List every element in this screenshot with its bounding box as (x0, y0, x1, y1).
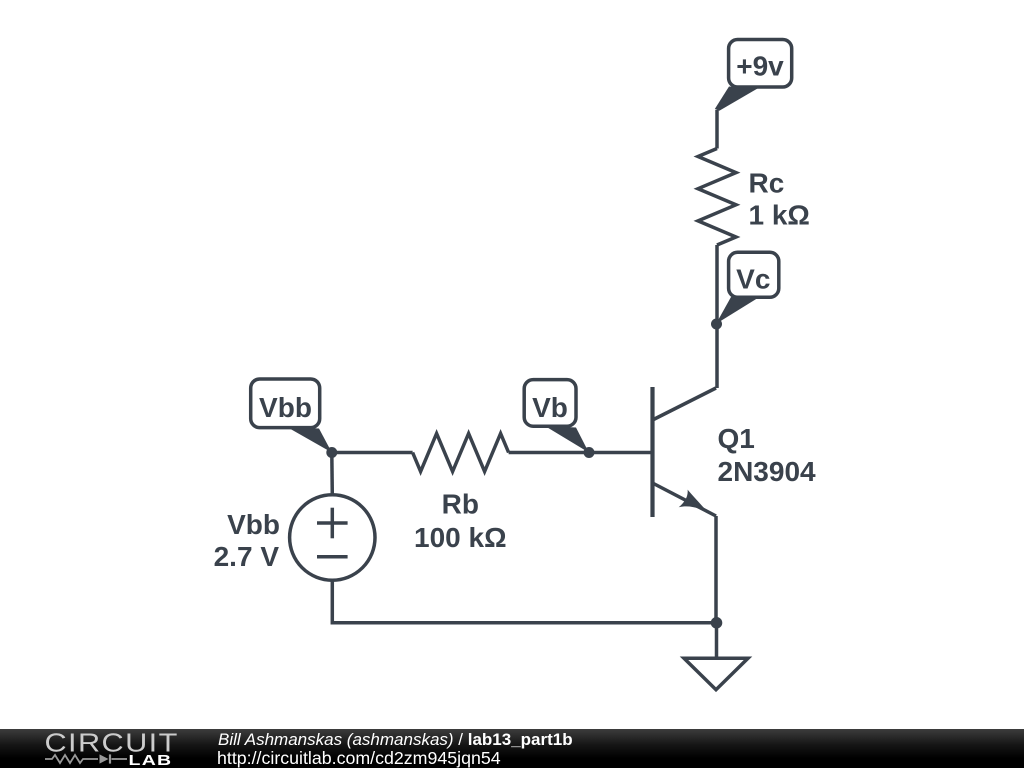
flag Vc (716, 252, 779, 324)
transistor Q1 emitter lead (653, 483, 717, 516)
wire Rc bottom to collector (715, 245, 719, 388)
flag Vbb (251, 379, 332, 453)
wire Vbb node to Rb left (332, 451, 413, 455)
transistor Q1 emitter arrow (679, 490, 709, 513)
footer title line (218, 730, 573, 750)
wire from +9v flag to Rc top (715, 110, 719, 149)
wire Vbb node down to source (330, 453, 334, 496)
svg-text:Vb: Vb (532, 392, 568, 423)
svg-text:Rc: Rc (749, 168, 785, 199)
svg-text:Vbb: Vbb (227, 509, 280, 540)
transistor Q1 collector lead (653, 388, 717, 420)
resistor Rc (698, 149, 736, 246)
svg-text:Vc: Vc (736, 264, 770, 295)
svg-text:2.7 V: 2.7 V (214, 541, 280, 572)
flag Vb (524, 380, 589, 453)
svg-text:LAB: LAB (129, 751, 173, 768)
wire emitter to ground junction (714, 516, 718, 623)
CircuitLab logo (0, 729, 180, 768)
svg-text:100 kΩ: 100 kΩ (414, 522, 507, 553)
node Vc junction dot (711, 319, 722, 330)
wire Rb right to Vb node (509, 451, 589, 455)
svg-text:Rb: Rb (442, 489, 479, 520)
value label Vbb 2.7 V (214, 509, 280, 572)
voltage source minus sign (317, 555, 348, 559)
svg-text:+9v: +9v (736, 51, 784, 82)
value label Rb 100 kOhm (414, 489, 507, 554)
transistor Q1 base bar (650, 387, 654, 517)
svg-text:Vbb: Vbb (259, 392, 312, 423)
footer bar (0, 729, 1024, 768)
wire source bottom down and right to ground junction (332, 580, 716, 623)
flag +9v (715, 40, 792, 111)
voltage source V1 circle (290, 495, 375, 580)
voltage source plus sign (317, 508, 348, 539)
footer url line (217, 748, 501, 769)
node Vbb junction dot (326, 447, 337, 458)
svg-text:1 kΩ: 1 kΩ (749, 200, 810, 231)
ground symbol (684, 623, 748, 690)
label Q1 2N3904 (718, 423, 817, 487)
svg-text:2N3904: 2N3904 (718, 456, 817, 487)
resistor Rb (413, 434, 509, 472)
node Vb junction dot (584, 447, 595, 458)
wire base (589, 451, 653, 455)
ground junction dot (711, 617, 723, 629)
value label Rc 1 kOhm (749, 168, 810, 231)
svg-text:Q1: Q1 (718, 423, 755, 454)
